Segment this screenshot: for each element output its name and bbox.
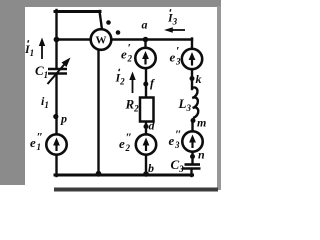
svg-text:′: ′ [176,44,179,58]
wire: right branch C3 to bottom wire [190,169,192,176]
node m [191,118,196,123]
svg-text:2: 2 [127,54,133,64]
wire: horizontal from left branch to wattmeter [56,38,92,40]
svg-text:d: d [149,119,156,133]
resistor R2 box [140,98,154,122]
svg-text:e: e [170,50,176,65]
node p [53,114,58,119]
variable capacitor C1 plates [48,69,67,74]
scan dark bottom bar [54,188,218,192]
wire: right branch L3 to e3" [191,120,193,132]
scan grey left margin [0,6,25,185]
node a junction dot [143,37,149,43]
wire: right branch e3" to C3 [191,152,193,164]
wattmeter polarity dot lower [116,30,121,35]
wire: wattmeter bottom vertical down to bottom wire [97,50,99,176]
wire: left branch vertical lower segment [55,155,57,177]
page background [0,0,221,193]
wire: top horizontal from wattmeter to right corner [112,38,193,40]
variable capacitor C1 arrow [48,58,71,85]
node f [143,82,148,87]
junction dot wattmeter vertical / bottom wire [96,171,102,177]
svg-text:a: a [142,18,148,32]
wire: middle branch R2 to e2" [145,121,147,135]
svg-text:e: e [169,133,175,148]
svg-text:″: ″ [126,130,133,144]
node n [190,154,195,159]
current arrow I3 [164,27,185,33]
current arrow I1 [39,38,45,60]
wire: left branch vertical upper segment [55,10,57,69]
wire: middle branch e2" to bottom wire [145,155,147,176]
source e3' circle [182,49,202,69]
svg-text:b: b [148,161,154,175]
node d [144,124,149,129]
svg-text:″: ″ [175,127,182,141]
node b junction dot [143,171,149,177]
svg-text:3: 3 [174,140,180,150]
svg-text:″: ″ [37,130,44,144]
svg-text:e: e [119,136,125,151]
source e2' circle [135,48,155,68]
svg-text:2: 2 [125,143,131,153]
scan grey top bar [0,0,221,7]
svg-text:e: e [30,135,36,150]
inductor L3 coil [192,87,198,118]
wire: middle branch e2' to R2 [145,68,147,98]
svg-text:e: e [121,47,127,62]
scan grey right border [217,6,221,190]
svg-text:n: n [198,148,205,162]
svg-text:1: 1 [37,142,42,152]
node k [190,76,195,81]
wattmeter polarity dot upper [106,20,111,25]
current arrow I2 [129,72,135,94]
capacitor C3 plates [182,165,201,169]
source e3" circle [182,131,202,151]
svg-text:3: 3 [175,57,181,67]
wire: right branch e3' to L3 [191,69,193,89]
junction dot left branch / wattmeter wire [54,37,60,43]
svg-text:k: k [196,72,202,86]
wattmeter W1 circle [91,29,112,50]
wire: top-left loop top horizontal [55,10,100,13]
source e2" circle [136,134,156,154]
wire: right branch corner vertical to e3' [191,39,193,50]
wire: top loop right vertical into wattmeter top [100,11,103,30]
wire: bottom horizontal [55,174,193,177]
wire: left branch vertical middle segment [55,75,57,135]
wire: middle branch from node a to e2' [144,40,146,49]
svg-text:W: W [96,35,107,47]
svg-text:′: ′ [128,41,131,55]
svg-text:m: m [197,116,206,130]
source e1" circle [46,134,66,154]
svg-text:p: p [60,112,67,126]
